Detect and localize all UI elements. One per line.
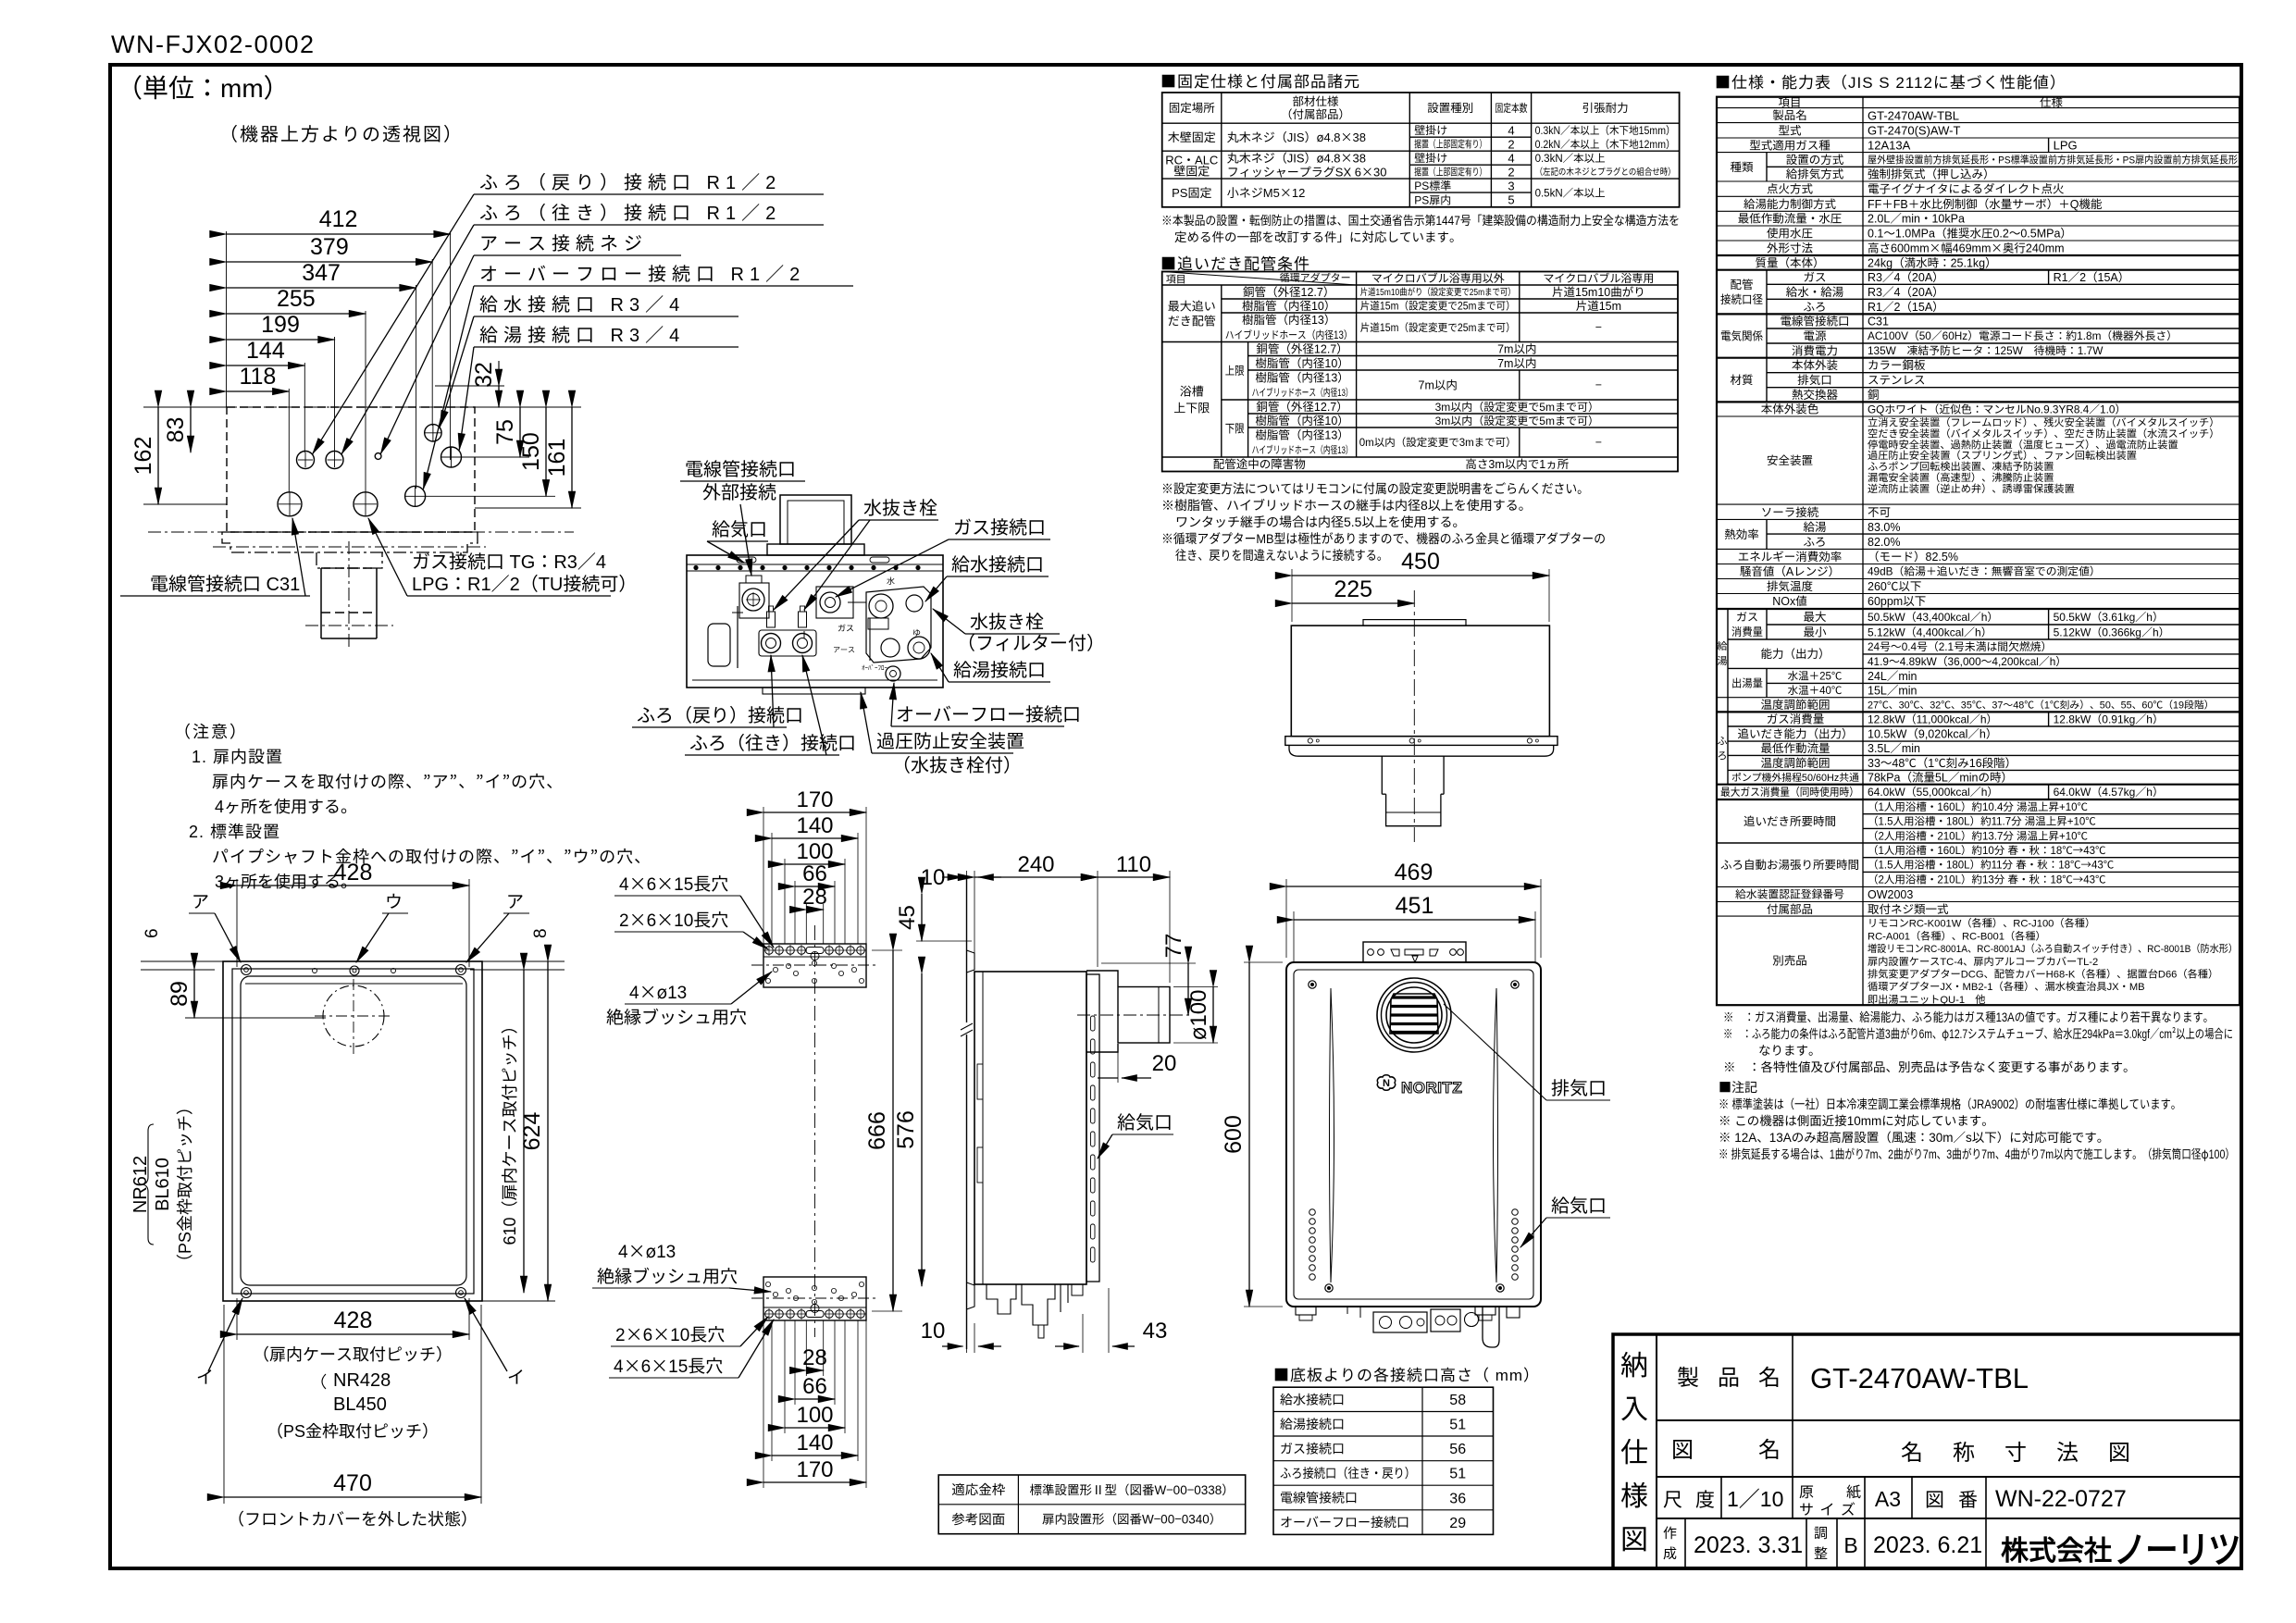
svg-text:なります。: なります。 bbox=[1758, 1040, 1821, 1059]
front view exhaust louvers bbox=[1390, 997, 1438, 1033]
svg-text:給水接続口: 給水接続口 bbox=[1280, 1390, 1345, 1408]
svg-text:樹脂管（内径13）: 樹脂管（内径13） bbox=[1255, 368, 1348, 386]
svg-text:給湯接続口: 給湯接続口 bbox=[1280, 1415, 1345, 1433]
port gas bbox=[354, 492, 378, 516]
svg-text:イ: イ bbox=[507, 1364, 525, 1389]
svg-text:（水抜き栓付）: （水抜き栓付） bbox=[892, 750, 1022, 777]
topview450 flue stub bbox=[1382, 756, 1444, 794]
svg-text:整: 整 bbox=[1814, 1543, 1828, 1563]
svg-text:58: 58 bbox=[1449, 1387, 1466, 1409]
svg-text:浴槽: 浴槽 bbox=[1180, 381, 1204, 399]
svg-text:LPG: LPG bbox=[2054, 136, 2078, 154]
side view bottom pipes bbox=[987, 1284, 1016, 1314]
svg-text:36: 36 bbox=[1449, 1485, 1466, 1507]
svg-text:6: 6 bbox=[138, 928, 163, 938]
top bracket slot holes bbox=[765, 947, 774, 955]
dim 161 right bbox=[475, 507, 581, 509]
dim 412 bbox=[227, 233, 451, 235]
wall plate inner rounded rect bbox=[241, 976, 466, 1285]
svg-text:（付属部品）: （付属部品） bbox=[1281, 105, 1350, 122]
port furo-return bbox=[297, 452, 315, 469]
svg-text:尺: 尺 bbox=[1663, 1485, 1682, 1513]
svg-text:ろ: ろ bbox=[1718, 749, 1728, 763]
svg-text:納: 納 bbox=[1620, 1343, 1648, 1383]
svg-text:安全装置: 安全装置 bbox=[1767, 451, 1813, 468]
svg-text:だき配管: だき配管 bbox=[1168, 311, 1216, 328]
svg-text:下限: 下限 bbox=[1225, 419, 1245, 437]
svg-text:64.0kW（55,000kcal／h）: 64.0kW（55,000kcal／h） bbox=[1868, 784, 1998, 799]
svg-text:※ ：ふろ能力の条件はふろ配管片道3曲がり6m、φ12.7シ: ※ ：ふろ能力の条件はふろ配管片道3曲がり6m、φ12.7システムチューブ、給水… bbox=[1723, 1023, 2233, 1042]
port overflow bbox=[405, 486, 426, 506]
svg-text:（フィルター付）: （フィルター付） bbox=[957, 628, 1105, 655]
svg-text:種類: 種類 bbox=[1730, 157, 1754, 175]
side dim phi100 bbox=[1173, 986, 1218, 988]
svg-text:過圧防止安全装置: 過圧防止安全装置 bbox=[876, 726, 1024, 753]
svg-text:（フロントカバーを外した状態）: （フロントカバーを外した状態） bbox=[228, 1506, 478, 1530]
svg-text:品: 品 bbox=[1718, 1359, 1740, 1392]
svg-text:配管途中の障害物: 配管途中の障害物 bbox=[1213, 454, 1306, 472]
side dim 10 bottom bbox=[966, 1314, 968, 1353]
svg-text:水抜き栓: 水抜き栓 bbox=[863, 493, 937, 520]
oidaki table grid bbox=[1162, 272, 1678, 472]
internal upper-left valve bbox=[739, 583, 769, 618]
svg-text:12.8kW（0.91kg／h）: 12.8kW（0.91kg／h） bbox=[2054, 712, 2164, 727]
topview450 centerline bbox=[1413, 590, 1415, 842]
svg-text:B: B bbox=[1843, 1528, 1857, 1559]
svg-text:※ 排気延長する場合は、1曲がり7m、2曲がり7m、3曲がり: ※ 排気延長する場合は、1曲がり7m、2曲がり7m、3曲がり7m、4曲がり7m以… bbox=[1719, 1144, 2235, 1162]
svg-text:ポンプ機外揚程50/60Hz共通: ポンプ機外揚程50/60Hz共通 bbox=[1731, 770, 1859, 785]
svg-text:−: − bbox=[1595, 317, 1602, 335]
svg-text:仕様: 仕様 bbox=[2040, 93, 2064, 110]
svg-text:20: 20 bbox=[1152, 1045, 1177, 1077]
bracket centerline bbox=[814, 925, 816, 1337]
spec table vertical lines bbox=[1862, 97, 1864, 1005]
svg-text:NOx値: NOx値 bbox=[1772, 591, 1807, 609]
svg-text:丸木ネジ（JIS）ø4.8×38: 丸木ネジ（JIS）ø4.8×38 bbox=[1227, 128, 1366, 145]
brace NR428 BL450 bbox=[322, 1374, 326, 1389]
svg-text:入: 入 bbox=[1620, 1386, 1648, 1427]
internal left tub bbox=[708, 624, 730, 666]
svg-text:※樹脂管、ハイブリッドホースの継手は内径8以上を使用する。: ※樹脂管、ハイブリッドホースの継手は内径8以上を使用する。 bbox=[1161, 496, 1532, 514]
svg-text:樹脂管（内径13）: 樹脂管（内径13） bbox=[1242, 310, 1335, 328]
svg-text:上限: 上限 bbox=[1225, 361, 1245, 378]
svg-text:オーバーフロー接続口: オーバーフロー接続口 bbox=[1280, 1513, 1409, 1531]
svg-text:給湯接続口 R3／4: 給湯接続口 R3／4 bbox=[479, 320, 685, 347]
svg-text:片道15m（設定変更で25mまで可）: 片道15m（設定変更で25mまで可） bbox=[1360, 320, 1516, 335]
dim 199 bbox=[227, 339, 335, 341]
svg-text:AC100V（50／60Hz）電源コード長さ：約1.8m（機: AC100V（50／60Hz）電源コード長さ：約1.8m（機器外長さ） bbox=[1868, 328, 2178, 343]
svg-text:図: 図 bbox=[1620, 1517, 1648, 1557]
front view dim 451 bbox=[1293, 911, 1295, 962]
dim 255 bbox=[227, 313, 366, 315]
svg-text:51: 51 bbox=[1449, 1461, 1466, 1483]
svg-text:BL450: BL450 bbox=[333, 1389, 387, 1416]
svg-text:樹脂管（内径13）: 樹脂管（内径13） bbox=[1255, 426, 1348, 443]
svg-text:GT-2470AW-TBL: GT-2470AW-TBL bbox=[1810, 1355, 2029, 1396]
svg-text:フィッシャープラグSX 6×30: フィッシャープラグSX 6×30 bbox=[1227, 162, 1387, 180]
oidaki header diagonal bbox=[1162, 272, 1357, 286]
svg-text:110: 110 bbox=[1116, 846, 1151, 878]
svg-text:0.2kN／本以上（木下地12mm）: 0.2kN／本以上（木下地12mm） bbox=[1535, 137, 1676, 152]
internal bath ports bbox=[762, 634, 781, 653]
svg-text:※設定変更方法についてはリモコンに付属の設定変更説明書をごら: ※設定変更方法についてはリモコンに付属の設定変更説明書をごらんください。 bbox=[1161, 479, 1589, 498]
svg-text:ゆ: ゆ bbox=[912, 626, 921, 638]
svg-text:固定場所: 固定場所 bbox=[1169, 98, 1216, 116]
svg-text:引張耐力: 引張耐力 bbox=[1582, 98, 1629, 116]
side dim 240 bbox=[1097, 871, 1098, 967]
svg-text:様: 様 bbox=[1620, 1473, 1648, 1514]
svg-text:ア: ア bbox=[506, 888, 524, 913]
svg-text:450: 450 bbox=[1401, 543, 1440, 576]
svg-text:1. 扉内設置: 1. 扉内設置 bbox=[192, 744, 283, 768]
port water-in bbox=[425, 425, 441, 441]
svg-text:作: 作 bbox=[1663, 1523, 1677, 1542]
svg-text:成: 成 bbox=[1663, 1543, 1677, 1563]
title block row4 bbox=[1684, 1518, 1686, 1568]
svg-text:番: 番 bbox=[1958, 1485, 1978, 1513]
side view flue centerline bbox=[1077, 1014, 1189, 1016]
side dim 110 bbox=[1169, 871, 1171, 983]
svg-text:24号〜0.4号（2.1号未満は間欠燃焼）: 24号〜0.4号（2.1号未満は間欠燃焼） bbox=[1868, 638, 2052, 654]
svg-text:接続口径: 接続口径 bbox=[1720, 290, 1763, 307]
front view bottom pipes bbox=[1373, 1312, 1427, 1332]
svg-text:50.5kW（43,400kcal／h）: 50.5kW（43,400kcal／h） bbox=[1868, 609, 1998, 625]
side dim 43 bbox=[1082, 1314, 1084, 1353]
frame reference table bbox=[938, 1475, 1245, 1534]
dim 379 bbox=[227, 261, 433, 263]
svg-text:（単位：mm）: （単位：mm） bbox=[117, 68, 290, 105]
side dim 45 bbox=[921, 894, 923, 941]
svg-text:15L／min: 15L／min bbox=[1868, 681, 1917, 699]
svg-text:固定本数: 固定本数 bbox=[1496, 100, 1528, 116]
svg-text:取付ネジ類一式: 取付ネジ類一式 bbox=[1868, 899, 1949, 917]
svg-text:（1人用浴槽・160L）約10.4分 湯温上昇+10℃: （1人用浴槽・160L）約10.4分 湯温上昇+10℃ bbox=[1868, 799, 2089, 814]
svg-text:1／10: 1／10 bbox=[1727, 1481, 1783, 1513]
spec table outer border bbox=[1717, 97, 2240, 1005]
top bracket plate bbox=[763, 944, 866, 987]
port conduit bbox=[278, 492, 302, 516]
svg-text:給水接続口: 給水接続口 bbox=[951, 550, 1044, 576]
svg-text:50.5kW（3.61kg／h）: 50.5kW（3.61kg／h） bbox=[2054, 609, 2164, 625]
svg-text:最小: 最小 bbox=[1803, 623, 1827, 640]
topview450 top tab bbox=[1363, 620, 1466, 626]
svg-text:名 称 寸 法 図: 名 称 寸 法 図 bbox=[1901, 1434, 2134, 1467]
svg-text:水温＋25℃: 水温＋25℃ bbox=[1788, 669, 1843, 684]
side dim 20 bbox=[1117, 1052, 1119, 1083]
svg-text:−: − bbox=[1595, 376, 1602, 393]
port hot-out bbox=[441, 447, 462, 467]
svg-text:（扉内ケース取付ピッチ）: （扉内ケース取付ピッチ） bbox=[253, 1342, 453, 1366]
svg-text:170: 170 bbox=[796, 1451, 833, 1483]
svg-text:設置種別: 設置種別 bbox=[1427, 98, 1473, 116]
svg-text:83: 83 bbox=[157, 417, 191, 443]
dim 610 right bbox=[523, 970, 525, 1293]
svg-text:熱効率: 熱効率 bbox=[1724, 525, 1759, 542]
svg-text:能力（出力）: 能力（出力） bbox=[1760, 644, 1830, 662]
svg-text:■固定仕様と付属部品諸元: ■固定仕様と付属部品諸元 bbox=[1160, 68, 1360, 92]
svg-text:サ イ ズ: サ イ ズ bbox=[1799, 1497, 1856, 1519]
side dim 10 top bbox=[966, 871, 968, 946]
dim 144 bbox=[227, 365, 305, 366]
front view dim 469 bbox=[1285, 879, 1287, 958]
svg-text:上下限: 上下限 bbox=[1173, 398, 1210, 415]
dims above bracket bbox=[763, 811, 866, 813]
dim 32 right bbox=[435, 385, 504, 387]
svg-text:最大ガス消費量（同時使用時）: 最大ガス消費量（同時使用時） bbox=[1720, 784, 1859, 799]
svg-text:片道15m（設定変更で25mまで可）: 片道15m（設定変更で25mまで可） bbox=[1360, 299, 1516, 314]
front view corner screws bbox=[1309, 981, 1316, 988]
svg-text:56: 56 bbox=[1449, 1436, 1466, 1458]
front view right crease bbox=[1494, 988, 1498, 1282]
svg-text:オーバーフロー接続口 R1／2: オーバーフロー接続口 R1／2 bbox=[479, 259, 805, 286]
svg-text:118: 118 bbox=[239, 358, 276, 391]
svg-text:給気口: 給気口 bbox=[712, 514, 767, 541]
svg-text:7m以内: 7m以内 bbox=[1419, 376, 1458, 393]
svg-text:湯: 湯 bbox=[1718, 653, 1728, 668]
front view body bbox=[1286, 962, 1541, 1307]
spec table horizontal lines bbox=[1717, 107, 2240, 109]
extension lines for horizontal dims bbox=[226, 231, 228, 407]
svg-text:ふ: ふ bbox=[1718, 734, 1728, 749]
wall plate top small holes bbox=[313, 969, 317, 973]
svg-text:アース: アース bbox=[833, 645, 855, 655]
svg-text:※ ：各特性値及び付属部品、別売品は予告なく変更する事があり: ※ ：各特性値及び付属部品、別売品は予告なく変更する事があります。 bbox=[1723, 1057, 2136, 1075]
svg-text:4×6×15長穴: 4×6×15長穴 bbox=[619, 871, 728, 896]
svg-text:78kPa（流量5L／minの時）: 78kPa（流量5L／minの時） bbox=[1868, 768, 2013, 786]
wall plate center hole u bbox=[350, 966, 359, 975]
svg-text:PS固定: PS固定 bbox=[1172, 183, 1211, 201]
svg-text:名: 名 bbox=[1758, 1431, 1781, 1464]
svg-text:（PS金枠取付ピッチ）: （PS金枠取付ピッチ） bbox=[172, 1098, 196, 1270]
internal view body bbox=[687, 555, 943, 688]
svg-text:240: 240 bbox=[1017, 846, 1054, 878]
svg-text:標準設置形Ⅱ型（図番W−00−0338）: 標準設置形Ⅱ型（図番W−00−0338） bbox=[1029, 1480, 1234, 1498]
svg-text:※ ：ガス消費量、出湯量、給湯能力、ふろ能力はガス種13Aの: ※ ：ガス消費量、出湯量、給湯能力、ふろ能力はガス種13Aの値です。ガス種により… bbox=[1723, 1007, 2214, 1025]
svg-text:図: 図 bbox=[1925, 1485, 1944, 1513]
svg-text:片道15m: 片道15m bbox=[1576, 296, 1621, 314]
svg-text:ガス接続口: ガス接続口 bbox=[953, 513, 1046, 539]
top view flange bbox=[222, 532, 478, 552]
top view centerline horizontal bbox=[148, 406, 574, 408]
side view wall bracket top bbox=[967, 950, 975, 973]
svg-text:2023. 3.31: 2023. 3.31 bbox=[1694, 1527, 1803, 1560]
svg-text:ふろ自動お湯張り所要時間: ふろ自動お湯張り所要時間 bbox=[1720, 855, 1859, 873]
side view small front details bbox=[977, 1064, 983, 1099]
svg-text:扉内ケースを取付けの際、”ア”、”イ”の穴、: 扉内ケースを取付けの際、”ア”、”イ”の穴、 bbox=[212, 769, 564, 793]
svg-text:※ この機器は側面近接10mmに対応しています。: ※ この機器は側面近接10mmに対応しています。 bbox=[1719, 1110, 1994, 1129]
svg-text:ガス: ガス bbox=[1736, 609, 1758, 625]
svg-text:4×ø13: 4×ø13 bbox=[618, 1238, 676, 1263]
internal extra piping bbox=[869, 618, 871, 661]
dim 75 right bbox=[460, 456, 529, 458]
side dim 77 bbox=[1187, 963, 1189, 1015]
svg-text:29: 29 bbox=[1449, 1510, 1466, 1532]
svg-text:付属部品: 付属部品 bbox=[1767, 899, 1813, 917]
svg-text:3m以内（設定変更で5mまで可）: 3m以内（設定変更で5mまで可） bbox=[1435, 413, 1599, 428]
topview450 bottom curve bbox=[1289, 745, 1554, 756]
internal mid gas valve bbox=[816, 587, 853, 618]
internal overflow port bbox=[886, 666, 900, 681]
svg-text:470: 470 bbox=[333, 1465, 372, 1498]
svg-text:銅: 銅 bbox=[1868, 385, 1880, 403]
side view wall bracket bottom bbox=[967, 1282, 975, 1309]
svg-text:パイプシャフト金枠への取付けの際、”イ”、”ウ”の穴、: パイプシャフト金枠への取付けの際、”イ”、”ウ”の穴、 bbox=[212, 844, 652, 868]
svg-text:図: 図 bbox=[1671, 1431, 1694, 1464]
title block outer bbox=[1613, 1334, 2241, 1568]
svg-text:度: 度 bbox=[1695, 1485, 1715, 1513]
dim 666 bbox=[892, 950, 894, 1311]
svg-text:■仕様・能力表（JIS S 2112に基づく性能値）: ■仕様・能力表（JIS S 2112に基づく性能値） bbox=[1715, 69, 2066, 93]
dim 470 bottom bbox=[223, 1305, 225, 1504]
svg-text:イ: イ bbox=[196, 1364, 214, 1389]
svg-text:本体外装色: 本体外装色 bbox=[1761, 400, 1819, 417]
svg-text:参考図面: 参考図面 bbox=[951, 1509, 1005, 1529]
svg-text:WN-22-0727: WN-22-0727 bbox=[1995, 1481, 2127, 1514]
svg-text:往き、戻りを間違えないように接続する。: 往き、戻りを間違えないように接続する。 bbox=[1175, 546, 1388, 564]
svg-text:7m以内: 7m以内 bbox=[1497, 353, 1536, 371]
svg-text:株式会社: 株式会社 bbox=[2001, 1528, 2112, 1568]
svg-text:定める件の一部を改訂する件」に対応しています。: 定める件の一部を改訂する件」に対応しています。 bbox=[1174, 227, 1462, 245]
svg-text:4ヶ所を使用する。: 4ヶ所を使用する。 bbox=[215, 794, 357, 818]
svg-text:製: 製 bbox=[1677, 1359, 1699, 1392]
internal view top cap bbox=[767, 544, 864, 555]
svg-text:428: 428 bbox=[334, 854, 373, 887]
svg-text:木壁固定: 木壁固定 bbox=[1168, 128, 1216, 145]
dims below bracket bbox=[806, 1369, 823, 1371]
svg-text:ｵｰﾊﾞｰﾌﾛｰ: ｵｰﾊﾞｰﾌﾛｰ bbox=[862, 663, 887, 673]
svg-text:5: 5 bbox=[1508, 191, 1514, 208]
top view flue stub bbox=[316, 552, 382, 568]
side view flue pipe bbox=[1118, 987, 1170, 1044]
svg-text:0.5kN／本以上: 0.5kN／本以上 bbox=[1535, 186, 1606, 201]
svg-text:水: 水 bbox=[887, 575, 895, 587]
topview450 flange screws bbox=[1308, 738, 1312, 743]
svg-text:ワンタッチ継手の場合は内径5.5以上を使用する。: ワンタッチ継手の場合は内径5.5以上を使用する。 bbox=[1175, 513, 1465, 531]
internal view top band bbox=[687, 564, 943, 565]
svg-text:給湯接続口: 給湯接続口 bbox=[953, 655, 1046, 682]
svg-text:51: 51 bbox=[1449, 1412, 1466, 1434]
svg-text:片道15m10曲がり（設定変更で25mまで可）: 片道15m10曲がり（設定変更で25mまで可） bbox=[1360, 284, 1516, 298]
internal bath ports block bbox=[759, 630, 816, 656]
svg-text:576: 576 bbox=[887, 1110, 921, 1149]
front view bottom feet bbox=[1296, 1307, 1316, 1315]
svg-text:8: 8 bbox=[527, 928, 552, 938]
svg-text:2023. 6.21: 2023. 6.21 bbox=[1873, 1527, 1982, 1560]
svg-text:428: 428 bbox=[334, 1302, 373, 1335]
internal view top duct bbox=[780, 495, 851, 544]
svg-text:※本製品の設置・転倒防止の措置は、国土交通省告示第1447号: ※本製品の設置・転倒防止の措置は、国土交通省告示第1447号「建築設備の構造耐力… bbox=[1161, 210, 1680, 229]
svg-text:絶縁ブッシュ用穴: 絶縁ブッシュ用穴 bbox=[606, 1004, 747, 1029]
svg-text:27℃、30℃、32℃、35℃、37〜48℃（1℃刻み）、5: 27℃、30℃、32℃、35℃、37〜48℃（1℃刻み）、50、55、60℃（1… bbox=[1868, 697, 2214, 712]
svg-text:4×ø13: 4×ø13 bbox=[629, 979, 687, 1004]
svg-text:12A13A: 12A13A bbox=[1868, 136, 1911, 154]
svg-text:名: 名 bbox=[1758, 1359, 1781, 1392]
topview450 dim 225 bbox=[1292, 602, 1414, 604]
svg-text:N: N bbox=[1383, 1075, 1390, 1090]
svg-text:ふろ（戻り）接続口 R1／2: ふろ（戻り）接続口 R1／2 bbox=[479, 167, 781, 194]
svg-text:60ppm以下: 60ppm以下 bbox=[1868, 591, 1926, 609]
svg-text:小ネジM5×12: 小ネジM5×12 bbox=[1227, 183, 1306, 201]
svg-text:追いだき所要時間: 追いだき所要時間 bbox=[1744, 811, 1836, 829]
svg-text:A3: A3 bbox=[1875, 1481, 1901, 1513]
wall plate mid rect bbox=[232, 969, 474, 1294]
svg-text:64.0kW（4.57kg／h）: 64.0kW（4.57kg／h） bbox=[2054, 784, 2164, 799]
dim 428 bottom bbox=[236, 1298, 238, 1340]
wall plate flue hole dashed circle bbox=[323, 985, 384, 1047]
svg-text:（1人用浴槽・160L）約10分 春・秋：18℃→43℃: （1人用浴槽・160L）約10分 春・秋：18℃→43℃ bbox=[1868, 843, 2106, 858]
svg-text:2×6×10長穴: 2×6×10長穴 bbox=[615, 1321, 725, 1346]
svg-text:壁掛け: 壁掛け bbox=[1414, 122, 1447, 138]
svg-text:−: − bbox=[1595, 433, 1602, 451]
svg-text:給水接続口 R3／4: 給水接続口 R3／4 bbox=[479, 290, 685, 316]
internal view bottom flange bbox=[692, 679, 937, 681]
dim 89 left bbox=[193, 970, 195, 1018]
svg-text:※ 標準塗装は（一社）日本冷凍空調工業会標準規格（JRA90: ※ 標準塗装は（一社）日本冷凍空調工業会標準規格（JRA9002）の耐塩害仕様に… bbox=[1719, 1094, 2181, 1112]
svg-text:（1.5人用浴槽・180L）約11分 春・秋：18℃→43℃: （1.5人用浴槽・180L）約11分 春・秋：18℃→43℃ bbox=[1868, 858, 2115, 873]
wall plate outer rect bbox=[223, 961, 482, 1301]
svg-text:給: 給 bbox=[1718, 638, 1728, 653]
svg-text:外部接続: 外部接続 bbox=[702, 477, 776, 504]
svg-text:（PS金枠取付ピッチ）: （PS金枠取付ピッチ） bbox=[267, 1419, 439, 1443]
side view body bbox=[974, 972, 1086, 1284]
svg-text:77: 77 bbox=[1155, 934, 1187, 959]
svg-text:別売品: 別売品 bbox=[1772, 951, 1807, 969]
svg-text:■底板よりの各接続口高さ（ mm）: ■底板よりの各接続口高さ（ mm） bbox=[1273, 1362, 1540, 1385]
dim 83 left bbox=[190, 407, 192, 452]
topview450 body bbox=[1291, 626, 1549, 737]
svg-text:NR428: NR428 bbox=[333, 1365, 391, 1392]
svg-text:（左記の木ネジとプラグとの組合せ時）: （左記の木ネジとプラグとの組合せ時） bbox=[1535, 164, 1676, 178]
svg-text:消費量: 消費量 bbox=[1731, 624, 1763, 639]
svg-text:材質: 材質 bbox=[1730, 370, 1753, 388]
svg-text:給気口: 給気口 bbox=[1117, 1108, 1173, 1134]
port furo-supply bbox=[326, 452, 343, 469]
svg-text:0m以内（設定変更で3mまで可）: 0m以内（設定変更で3mまで可） bbox=[1359, 435, 1517, 450]
svg-text:項目: 項目 bbox=[1166, 272, 1186, 287]
dim 624 right bbox=[478, 960, 555, 962]
front view noritz mark bbox=[1377, 1075, 1395, 1091]
svg-text:電線管接続口: 電線管接続口 bbox=[1280, 1489, 1358, 1507]
dim 428 top bbox=[236, 879, 238, 967]
svg-text:オーバーフロー接続口: オーバーフロー接続口 bbox=[896, 700, 1081, 726]
side view slots bbox=[1091, 1016, 1096, 1031]
side view flue duct bbox=[1086, 971, 1118, 1052]
svg-text:壁固定: 壁固定 bbox=[1173, 161, 1210, 179]
front view dim 600 bbox=[1244, 961, 1283, 963]
svg-text:壁掛け: 壁掛け bbox=[1414, 150, 1447, 166]
svg-text:（注意）: （注意） bbox=[174, 719, 248, 743]
svg-text:ふろ（往き）接続口 R1／2: ふろ（往き）接続口 R1／2 bbox=[479, 198, 781, 225]
svg-text:給気口: 給気口 bbox=[1551, 1191, 1607, 1218]
svg-text:469: 469 bbox=[1395, 854, 1433, 887]
top view body outline dashed bbox=[227, 407, 475, 532]
fixing table grid bbox=[1162, 93, 1680, 207]
svg-text:2×6×10長穴: 2×6×10長穴 bbox=[619, 907, 728, 932]
dim 150 right bbox=[425, 495, 555, 497]
svg-text:NORITZ: NORITZ bbox=[1401, 1074, 1462, 1097]
svg-text:高さ3m以内で1ヵ所: 高さ3m以内で1ヵ所 bbox=[1465, 454, 1569, 472]
dim 162 left bbox=[143, 406, 227, 408]
svg-text:仕: 仕 bbox=[1620, 1430, 1648, 1470]
svg-text:0.3kN／本以上（木下地15mm）: 0.3kN／本以上（木下地15mm） bbox=[1535, 123, 1676, 138]
bottom bracket plate bbox=[763, 1277, 866, 1320]
svg-text:ア: ア bbox=[192, 888, 209, 913]
internal view top slots bbox=[737, 557, 756, 563]
svg-text:89: 89 bbox=[161, 981, 194, 1007]
svg-text:（モード）82.5%: （モード）82.5% bbox=[1868, 547, 1958, 564]
svg-text:162: 162 bbox=[125, 437, 158, 476]
front view top bracket bbox=[1363, 942, 1466, 962]
